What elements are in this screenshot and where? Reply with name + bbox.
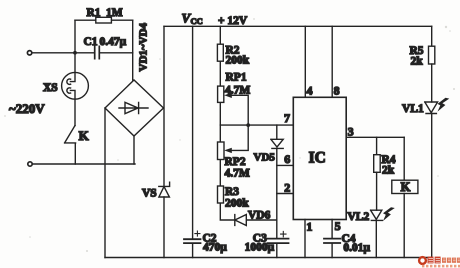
terminal T1 (mains input top) (27, 51, 31, 55)
wire pin1 (304, 220, 306, 258)
label C3 plus sign (281, 231, 286, 236)
resistor R1 (96, 17, 112, 23)
LED VL2 flash arrow (383, 207, 395, 221)
LED VL1 (425, 102, 438, 114)
svg-text:K: K (79, 128, 90, 143)
wire bridge left vertex down to ground (104, 108, 106, 258)
svg-text:200k: 200k (226, 54, 250, 66)
zener diode VS (159, 182, 170, 197)
svg-text:+ 12V: + 12V (218, 15, 248, 27)
wire node A up to R1 branch (74, 20, 76, 53)
wire R4 to VL2 (376, 172, 378, 210)
svg-text:4.7M: 4.7M (225, 85, 250, 97)
resistor R5 (429, 46, 435, 64)
svg-text:VL1: VL1 (402, 103, 424, 115)
wire VCC vertical line (163, 26, 165, 257)
capacitor C3 (268, 239, 289, 244)
wire pin5 (331, 220, 333, 258)
relay coil K box (392, 180, 418, 193)
socket XS upper contact (67, 53, 75, 85)
svg-text:VD1~VD4: VD1~VD4 (138, 23, 150, 72)
wire resistor chain vertical (220, 26, 235, 220)
capacitor C1 (95, 46, 100, 58)
relay contact K (switch blade) (65, 126, 76, 165)
svg-text:1000μ: 1000μ (245, 242, 275, 254)
svg-text:~220V: ~220V (9, 101, 45, 116)
svg-text:R3: R3 (225, 186, 239, 198)
svg-text:VS: VS (142, 187, 157, 199)
wire pin8 (331, 26, 333, 97)
wire C1 branch right (99, 52, 132, 54)
svg-text:CC: CC (191, 16, 203, 26)
svg-text:XS: XS (43, 82, 58, 94)
watermark logo (419, 257, 460, 268)
wire T1 to node A (32, 52, 75, 54)
IC U1 box (293, 97, 346, 219)
svg-text:C1: C1 (84, 36, 98, 48)
wire ground rail (105, 257, 432, 259)
wire R5 to VL1 (431, 64, 433, 102)
wire right vertical to bridge (132, 20, 134, 80)
LED VL1 flash arrow (438, 98, 450, 112)
socket XS lower contact (67, 88, 75, 126)
svg-text:R1: R1 (87, 7, 101, 19)
svg-text:0.01μ: 0.01μ (343, 242, 370, 254)
svg-text:4.7M: 4.7M (225, 168, 250, 180)
wire T2 to bridge bottom (32, 163, 135, 165)
potentiometer RP2 (218, 142, 225, 160)
wire bridge bottom vertex down (133, 136, 135, 164)
svg-text:K: K (401, 180, 411, 194)
resistor R4 (374, 155, 381, 173)
wire pin3 down to relay (403, 137, 405, 180)
diode VD6 (235, 215, 277, 226)
svg-text:4: 4 (307, 84, 313, 98)
svg-text:7: 7 (284, 111, 290, 125)
bridge inner diode (119, 102, 148, 113)
wire pin6 stub (277, 164, 294, 166)
wire pin7 horizontal (220, 124, 293, 126)
svg-text:VL2: VL2 (348, 211, 370, 223)
svg-text:8: 8 (334, 84, 340, 98)
svg-text:3: 3 (348, 124, 354, 138)
svg-text:200k: 200k (225, 198, 249, 210)
wire right rail top (431, 26, 433, 46)
svg-text:470μ: 470μ (203, 241, 227, 253)
wire pin4 (304, 26, 306, 97)
svg-text:VD6: VD6 (248, 210, 271, 222)
RP2 wiper arrow (231, 125, 248, 150)
wire C3 down (276, 244, 278, 258)
socket XS circle (62, 72, 89, 99)
wire R4 branch (376, 137, 378, 154)
wire pin3 horizontal (346, 136, 404, 138)
wire top VCC rail (164, 25, 432, 27)
capacitor C4 (324, 239, 340, 243)
RP1 wiper arrow (231, 95, 248, 125)
svg-text:IC: IC (309, 150, 326, 167)
resistor R2 (217, 44, 223, 61)
svg-text:2: 2 (284, 180, 290, 194)
wire VL2 to ground (375, 220, 377, 257)
wire C2 branch (192, 26, 194, 257)
wire VL1 to ground (431, 114, 433, 258)
wire relay to ground (403, 194, 405, 258)
svg-text:0.47μ: 0.47μ (100, 36, 127, 48)
node B junction dot (246, 123, 250, 127)
node A junction dot (73, 51, 77, 55)
diode VD5 (271, 125, 283, 148)
potentiometer RP1 (218, 86, 224, 102)
svg-text:VD5: VD5 (254, 151, 276, 163)
capacitor C2 (184, 239, 201, 243)
svg-text:1: 1 (306, 220, 312, 234)
svg-text:RP1: RP1 (226, 72, 247, 84)
svg-text:6: 6 (284, 152, 290, 166)
bridge rectifier VD1-VD4 diamond (105, 80, 164, 136)
svg-text:1M: 1M (106, 7, 123, 19)
wire C1 branch left (75, 52, 95, 54)
svg-text:5: 5 (335, 219, 341, 233)
svg-text:2k: 2k (411, 56, 424, 68)
wire R1 branch top (75, 19, 133, 21)
wire pin2 stub (277, 193, 294, 195)
svg-text:RP2: RP2 (225, 156, 246, 168)
terminal T2 (mains input bottom) (28, 162, 32, 166)
wire VD5 column down (276, 148, 278, 238)
svg-text:2k: 2k (382, 165, 395, 177)
label C2 plus sign (195, 231, 200, 236)
LED VL2 (371, 210, 383, 220)
resistor R3 (218, 186, 224, 203)
